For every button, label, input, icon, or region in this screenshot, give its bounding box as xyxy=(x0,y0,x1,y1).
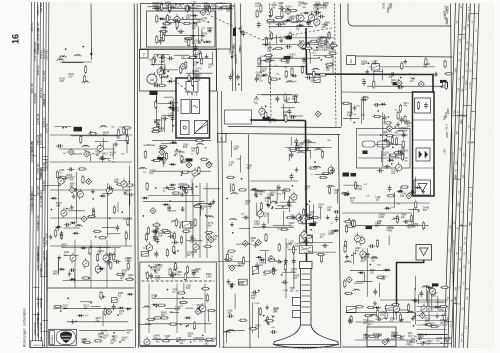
resistor (tuner bottom row) xyxy=(205,338,214,340)
resistor (sync clipper) xyxy=(383,122,392,124)
capacitor (luma delay) xyxy=(168,102,171,104)
wire (tuner internals) xyxy=(139,324,152,326)
resistor (tuner drive) xyxy=(185,61,187,70)
ground (UHF stage) xyxy=(50,234,52,237)
wire (RGB matrix) xyxy=(277,205,292,207)
resistor (right comp block) xyxy=(440,286,449,288)
test point (chassis parts) xyxy=(106,309,112,315)
resistor (video driver) xyxy=(285,114,287,123)
wire (video driver) xyxy=(290,115,304,117)
resistor (supply parts) xyxy=(408,303,410,312)
resistor (IF AGC) xyxy=(184,188,193,190)
svg-text:W569 6V8: W569 6V8 xyxy=(37,42,40,54)
resistor (resistor ladder) xyxy=(328,52,337,54)
wire (sync clipper) xyxy=(380,151,382,162)
resistor (IF amplifier) xyxy=(163,33,165,42)
left bottom bus wire 1 xyxy=(74,240,76,288)
diode (band switch) xyxy=(69,278,76,280)
resistor (AGC stage) xyxy=(144,150,146,159)
junction (band switch) xyxy=(107,259,109,261)
junction (focus divider) xyxy=(252,273,254,275)
junction (luma delay) xyxy=(172,125,174,127)
resistor (supply parts) xyxy=(366,307,375,309)
revision table divider xyxy=(42,275,48,277)
deflection thick wire xyxy=(397,260,424,306)
svg-text:S467 120: S467 120 xyxy=(43,93,46,104)
capacitor (right comp block) xyxy=(420,290,422,293)
capacitor (tuner AFC) xyxy=(101,155,103,158)
junction (right comp rows) xyxy=(416,340,418,342)
ground (sync separator) xyxy=(435,72,437,75)
resistor (sound demod) xyxy=(274,47,283,49)
capacitor (audio out) xyxy=(256,76,258,79)
wire (chassis parts) xyxy=(64,307,119,309)
resistor (resistor ladder) xyxy=(318,74,327,76)
bus wire xyxy=(235,4,236,92)
resistor (CRT base parts) xyxy=(259,307,261,316)
svg-text:D551 0,1: D551 0,1 xyxy=(31,21,34,31)
wire (audio out) xyxy=(268,61,270,75)
capacitor (neck board) xyxy=(303,214,306,216)
junction (sync separator) xyxy=(441,86,443,88)
resistor (audio out) xyxy=(291,67,293,76)
resistor (IF input row) xyxy=(161,3,163,12)
junction (tuner internals) xyxy=(186,326,188,328)
resistor (EHT parts) xyxy=(321,254,323,263)
resistor (chassis bottom row) xyxy=(82,341,91,343)
capacitor (band switch) xyxy=(107,254,110,256)
junction (UHF stage) xyxy=(93,211,95,213)
wire (video driver) xyxy=(283,104,285,121)
diode (supply parts) xyxy=(374,307,381,309)
resistor (filled) (sound demod) xyxy=(286,36,292,39)
RGB section wire xyxy=(250,180,298,182)
resistor (UHF stage) xyxy=(56,170,58,179)
diode (IF amplifier) xyxy=(161,27,168,29)
transistor T8 xyxy=(192,170,198,176)
left section row wire 3 xyxy=(50,189,132,191)
capacitor (sync clipper) xyxy=(403,132,405,135)
junction (AGC stage) xyxy=(183,172,185,174)
resistor (tuner drive) xyxy=(180,66,182,75)
revision table divider xyxy=(42,155,48,157)
resistor (frame output) xyxy=(344,221,353,223)
svg-text:C619 680: C619 680 xyxy=(34,93,37,104)
diode (focus divider) xyxy=(256,256,263,258)
lower box bottom rule xyxy=(222,346,341,348)
resistor (IF AGC) xyxy=(181,235,183,244)
junction (tuner AFC) xyxy=(62,127,64,129)
section divider wire xyxy=(137,4,138,348)
capacitor (chroma stage) xyxy=(291,152,293,155)
resistor (AGC stage) xyxy=(198,166,200,175)
resistor (focus divider) xyxy=(272,267,274,276)
capacitor (sound demod) xyxy=(263,43,266,45)
lower section top rule xyxy=(222,134,340,135)
wire (tuner bottom row) xyxy=(152,339,205,341)
junction (frame output) xyxy=(418,210,420,212)
inductor (video out stage) xyxy=(223,332,225,334)
resistor (AGC stage) xyxy=(165,152,167,161)
resistor (frame output) xyxy=(345,224,347,233)
resistor (tuner internals) xyxy=(207,310,216,312)
revision table rule 4 xyxy=(38,2,40,347)
resistor (sound IF) xyxy=(289,10,298,12)
svg-text:W448 8,2: W448 8,2 xyxy=(40,297,43,308)
junction (tuner internals) xyxy=(187,325,189,327)
wire (EHT parts) xyxy=(337,189,339,203)
junction (right comp block) xyxy=(426,324,428,326)
left section row wire 4 xyxy=(50,217,132,219)
diode (chassis parts) xyxy=(118,307,125,309)
wire (UHF stage) xyxy=(76,172,78,222)
resistor (tuner top row) xyxy=(187,265,189,274)
svg-text:L644 22p: L644 22p xyxy=(37,311,40,322)
wire (chroma stage) xyxy=(315,173,329,175)
module box (focus divider) xyxy=(253,266,259,273)
resistor (tuner AFC) xyxy=(80,135,82,144)
resistor (band switch) xyxy=(110,261,112,270)
capacitor (IF detector) xyxy=(153,84,156,86)
wire (frame drive) xyxy=(354,282,364,284)
diode (IF detector) xyxy=(167,80,174,82)
resistor (IF AGC) xyxy=(173,232,175,241)
junction (AGC stage) xyxy=(182,172,184,174)
resistor (UHF stage) xyxy=(58,176,67,178)
wire (frame output) xyxy=(351,202,430,204)
resistor (supply parts) xyxy=(400,313,402,322)
capacitor (neck board) xyxy=(311,222,314,224)
resistor (resistor ladder) xyxy=(329,45,338,47)
junction (tuner internals) xyxy=(180,324,182,326)
junction (right comp rows) xyxy=(425,334,427,336)
resistor (frame output) xyxy=(396,215,398,224)
resistor (sound IF) xyxy=(270,8,272,17)
module sub box xyxy=(415,98,431,113)
wire (sound demod) xyxy=(262,44,321,46)
resistor (tuner internals) xyxy=(206,293,208,302)
resistor (tuner AFC) xyxy=(126,135,128,144)
ground (video out stage) xyxy=(227,279,229,282)
junction (tuner top row) xyxy=(148,265,150,267)
capacitor (IF AGC) xyxy=(156,237,158,240)
resistor (IF AGC) xyxy=(147,226,149,235)
ground (sound IF) xyxy=(307,20,309,23)
wire (tuner internals) xyxy=(185,307,193,309)
wire (chassis parts) xyxy=(91,306,101,308)
test point (right comp block) xyxy=(419,313,425,319)
transistor T9 xyxy=(121,181,127,187)
junction (chroma stage) xyxy=(314,161,316,163)
ground (sync separator) xyxy=(404,59,406,62)
junction (IF top row 2) xyxy=(162,4,164,6)
junction (RGB matrix) xyxy=(282,206,284,208)
signal arrow xyxy=(240,25,242,33)
wire (frame drive) xyxy=(379,283,381,297)
ground (IF amplifier) xyxy=(209,28,211,31)
wire (CRT base parts) xyxy=(252,302,254,333)
right box bottom rule xyxy=(342,346,448,348)
wire (frame output) xyxy=(415,177,417,195)
resistor (IF AGC) xyxy=(203,245,212,247)
wire (UHF stage) xyxy=(69,210,85,212)
wire (IF amplifier) xyxy=(168,22,183,24)
vertical amp triangle xyxy=(420,248,429,256)
resistor (tuner internals) xyxy=(179,301,188,303)
transistor (IF amplifier) xyxy=(174,16,180,22)
bus wire xyxy=(232,4,233,92)
resistor (filled) (sync separator) xyxy=(393,82,399,85)
video thick wire xyxy=(306,121,307,265)
lower section right edge xyxy=(339,135,341,348)
bus wire xyxy=(222,91,224,348)
junction (CRT base parts) xyxy=(268,323,270,325)
svg-text:C867 33k: C867 33k xyxy=(37,27,40,38)
wire (band switch) xyxy=(58,261,60,275)
resistor (supply parts) xyxy=(364,315,373,317)
transistor T7 xyxy=(193,244,199,250)
capacitor (chassis parts) xyxy=(113,304,115,307)
wire (supply parts) xyxy=(355,321,411,323)
wire (video driver) xyxy=(286,102,300,104)
transistor output 2 xyxy=(421,306,427,312)
wire (sync clipper) xyxy=(403,143,405,158)
revision table rule 6 xyxy=(44,2,46,347)
inductor (sync clipper) xyxy=(396,130,398,132)
wire (AGC stage) xyxy=(143,144,155,146)
junction (tuner bottom row) xyxy=(176,340,178,342)
wire (UHF stage) xyxy=(63,227,79,229)
inductor (sound demod) xyxy=(319,37,321,39)
wire (RGB matrix) xyxy=(280,201,296,203)
resistor (IF AGC) xyxy=(181,185,190,187)
junction (EHT parts) xyxy=(309,201,311,203)
IF AGC bus wire 2 xyxy=(192,183,194,258)
resistor (EHT parts) xyxy=(304,217,313,219)
wire (VHF stage) xyxy=(107,233,121,235)
capacitor (IF AGC) xyxy=(168,235,171,237)
wire (IF input row) xyxy=(147,6,154,8)
wire (luma delay) xyxy=(172,104,174,132)
resistor (RGB matrix) xyxy=(286,217,295,219)
resistor (tuner drive) xyxy=(188,56,197,58)
resistor (IF AGC) xyxy=(161,230,170,232)
wire (tuner drive) xyxy=(211,52,213,65)
junction (focus divider) xyxy=(281,274,283,276)
junction (frame output) xyxy=(348,218,350,220)
resistor (sync clipper) xyxy=(402,152,404,161)
electrolytic (filled) xyxy=(74,127,83,132)
junction (chassis parts) xyxy=(117,314,119,316)
resistor (sync separator) xyxy=(425,57,427,66)
ground (RGB matrix) xyxy=(278,185,280,188)
capacitor (UHF stage) xyxy=(72,189,75,191)
wire (video out stage) xyxy=(231,141,233,158)
wire (video out stage) xyxy=(239,228,250,230)
resistor (sound demod) xyxy=(328,31,330,40)
junction (VHF stage) xyxy=(129,181,131,183)
junction (IF amplifier) xyxy=(182,17,184,19)
line output module box xyxy=(413,92,435,196)
module box (audio out) xyxy=(314,77,320,82)
wire (tuner drive) xyxy=(181,58,212,60)
wire (band switch) xyxy=(63,280,123,282)
section label 7 box xyxy=(140,50,149,59)
junction (frame drive) xyxy=(355,253,357,255)
resistor (chassis parts) xyxy=(53,305,62,307)
capacitor (IF AGC) xyxy=(178,187,181,189)
resistor (band switch) xyxy=(116,273,125,275)
resistor (supply parts) xyxy=(385,311,387,320)
resistor (IF amplifier) xyxy=(184,38,193,40)
test point diamond 12 xyxy=(382,339,388,345)
junction (tuner top row) xyxy=(150,267,152,269)
wire (video out stage) xyxy=(228,265,244,267)
inductor (frame drive) xyxy=(370,257,372,259)
CRT grid electrode 2 xyxy=(302,279,311,281)
diode (chassis parts) xyxy=(77,315,84,317)
junction (CRT base parts) xyxy=(272,316,274,318)
svg-text:C920 120: C920 120 xyxy=(37,215,40,226)
junction (line osc) xyxy=(350,115,352,117)
wire (IF amplifier) xyxy=(160,35,204,37)
resistor (IF detector) xyxy=(158,84,167,86)
diode (sync clipper) xyxy=(380,103,387,105)
resistor (IF detector) xyxy=(162,54,164,63)
capacitor (chroma stage) xyxy=(332,168,334,171)
deflection amp triangle xyxy=(418,184,427,192)
resistor (neck board) xyxy=(303,208,305,217)
capacitor (video out stage) xyxy=(227,315,230,317)
wire (video out stage) xyxy=(240,155,242,172)
capacitor (frame output) xyxy=(403,221,406,223)
resistor (sync clipper) xyxy=(393,152,402,154)
relay wires xyxy=(358,134,408,136)
resistor (audio out) xyxy=(313,70,315,79)
inductor (IF AGC) xyxy=(171,221,173,223)
resistor (frame output) xyxy=(411,214,413,223)
diode (video buffer) xyxy=(191,22,198,24)
wire (supply parts) xyxy=(367,316,369,327)
regulator symbol xyxy=(183,126,186,129)
test point (video out stage) xyxy=(242,240,248,246)
wire (frame drive) xyxy=(364,273,366,282)
capacitor (VHF stage) xyxy=(127,194,130,196)
capacitor (chroma stage) xyxy=(291,173,293,176)
junction (tuner internals) xyxy=(155,295,157,297)
wire (right comp block) xyxy=(437,296,439,310)
wire (EHT parts) xyxy=(301,242,333,244)
inductor (chroma stage) xyxy=(303,140,305,142)
wire (IF detector) xyxy=(151,64,164,66)
wire (supply parts) xyxy=(396,307,398,320)
resistor (video driver) xyxy=(284,93,286,102)
resistor (chroma stage) xyxy=(319,177,328,179)
test point diamond 10 xyxy=(229,265,235,271)
test point diamond 9 xyxy=(208,237,214,243)
CRT bell xyxy=(274,325,339,345)
resistor (EHT parts) xyxy=(329,186,331,195)
resistor (focus divider) xyxy=(278,243,280,252)
junction (tuner AFC) xyxy=(90,131,92,133)
capacitor (frame drive) xyxy=(354,238,357,240)
motor symbol xyxy=(147,74,157,84)
capacitor (IF AGC) xyxy=(152,231,155,233)
wire (frame output) xyxy=(409,209,420,211)
resistor (frame output) xyxy=(415,200,417,209)
capacitor (IF amplifier) xyxy=(159,38,161,41)
capacitor (IF amplifier) xyxy=(173,20,176,22)
resistor (AGC stage) xyxy=(181,155,183,164)
wire (RGB matrix) xyxy=(273,224,291,226)
power module box xyxy=(176,78,210,138)
capacitor (IF AGC) xyxy=(172,242,175,244)
ground (supply parts) xyxy=(401,317,403,320)
resistor (tuner internals) xyxy=(160,317,169,319)
junction (sound demod) xyxy=(288,36,290,38)
resistor (chassis bottom row) xyxy=(94,340,103,342)
capacitor (UHF stage) xyxy=(67,168,70,170)
resistor (sound demod) xyxy=(266,37,268,46)
wire (focus divider) xyxy=(288,249,298,251)
resistor (sound demod) xyxy=(289,31,291,40)
wire (UHF stage) xyxy=(58,179,60,231)
capacitor (RGB matrix) xyxy=(263,222,265,225)
transistor output 1 xyxy=(393,306,399,312)
ground (focus divider) xyxy=(254,243,256,246)
logo type strip box xyxy=(50,330,55,344)
wire (luma delay) xyxy=(161,117,163,132)
resistor (frame output) xyxy=(423,221,425,230)
wire (luma delay) xyxy=(162,114,175,116)
resistor (audio out) xyxy=(280,59,289,61)
wire (video driver) xyxy=(257,94,292,96)
resistor (IF AGC) xyxy=(167,188,176,190)
ground (CRT base parts) xyxy=(266,305,268,308)
diode (video buffer) xyxy=(191,15,198,17)
resistor (VHF stage) xyxy=(127,217,129,226)
transistor (sound IF) xyxy=(314,19,320,25)
wire (video out stage) xyxy=(236,243,253,245)
junction (RGB matrix) xyxy=(271,208,273,210)
junction (audio out) xyxy=(279,78,281,80)
ground (supply parts) xyxy=(374,301,376,304)
diode (band switch) xyxy=(96,267,103,269)
resistor (EHT parts) xyxy=(311,216,320,218)
module box (IF AGC) xyxy=(183,221,191,228)
capacitor (tuner top row) xyxy=(193,270,195,273)
resistor (IF AGC) xyxy=(182,230,191,232)
diode (frame output) xyxy=(396,191,403,193)
ground (IF detector) xyxy=(163,71,165,74)
resistor (supply parts) xyxy=(377,309,379,318)
capacitor (focus divider) xyxy=(256,262,258,265)
resistor (focus divider) xyxy=(284,262,286,271)
diode (UHF stage) xyxy=(50,197,57,199)
resistor (RGB matrix) xyxy=(282,189,291,191)
resistor (UHF stage) xyxy=(61,231,63,240)
resistor (chroma stage) xyxy=(321,150,323,159)
junction (IF amplifier) xyxy=(166,19,168,21)
test point (sound demod) xyxy=(298,42,304,48)
resistor (sync clipper) xyxy=(389,154,398,156)
IF AGC bus wire 1 xyxy=(185,183,187,258)
capacitor (video driver) xyxy=(269,117,271,120)
resistor (UHF stage) xyxy=(55,229,57,238)
inductor (video out stage) xyxy=(230,193,232,195)
wire (line osc) xyxy=(343,117,359,119)
transistor (VHF stage) xyxy=(106,188,112,194)
